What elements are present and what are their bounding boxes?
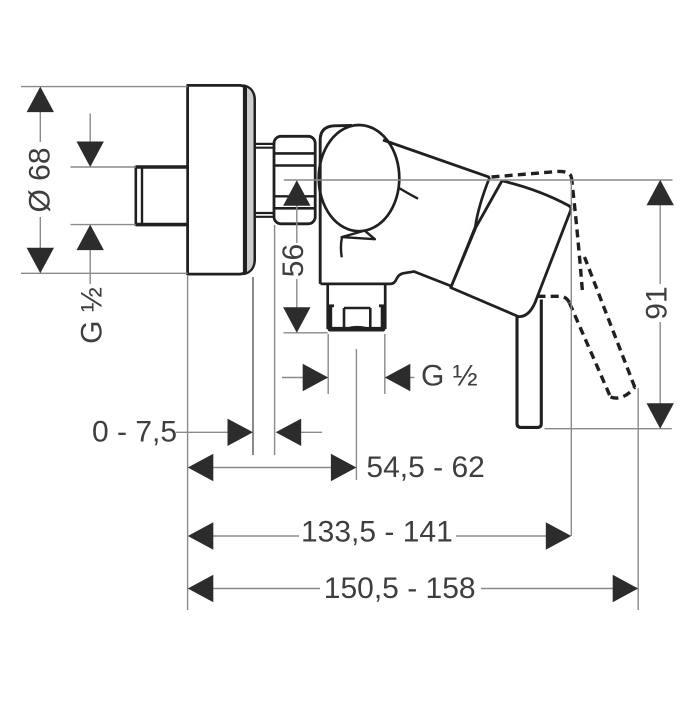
arrow 133.5-141 right — [546, 522, 572, 549]
ext line wall plane — [187, 276, 189, 610]
spout tip triangle — [342, 231, 375, 240]
ext line pipe bottom — [545, 428, 672, 430]
nut facet line 3 — [274, 195, 315, 197]
nut facet line 1 — [274, 152, 315, 155]
arrow 91 down — [647, 403, 674, 429]
dim line Ø68 upper — [39, 110, 41, 142]
dim line 56 upper — [296, 202, 298, 243]
arrow Ø68 bottom — [27, 248, 54, 273]
ext line nipple top — [71, 166, 136, 168]
outlet nut inner facet right — [369, 308, 372, 329]
pipe nipple inner end line — [141, 167, 143, 225]
ext line outlet right — [384, 334, 386, 394]
nut facet line 4 — [274, 207, 315, 210]
dim line 56 lower — [296, 279, 298, 310]
dashed grip end cap — [611, 387, 635, 398]
arrow 0-7.5 left-pointing — [276, 419, 302, 446]
outlet nut top edge left — [328, 304, 334, 307]
dim line 150.5-158 left — [212, 588, 320, 590]
dashed handle right edge — [571, 177, 582, 292]
flange outline — [188, 85, 255, 274]
ext line flange top — [21, 86, 188, 88]
dim line 133.5-141 left — [212, 535, 299, 537]
outlet tube outline — [328, 284, 386, 329]
body bottom edge — [321, 272, 520, 317]
ext line handle corner — [570, 179, 572, 536]
svg-text:G ½: G ½ — [421, 360, 478, 393]
ball ellipse — [319, 125, 400, 231]
dim line G12-mid left — [282, 377, 306, 379]
supply pipe nipple — [136, 167, 188, 225]
ext line nipple bottom — [71, 224, 136, 226]
dim line 0-7.5 right — [297, 431, 322, 433]
ball seam arc — [399, 188, 418, 199]
outlet nut inner facet left — [343, 308, 346, 329]
arrow 56 down — [283, 307, 310, 333]
arrow 54.5-62 left — [188, 454, 214, 481]
dashed grip left edge — [570, 303, 611, 397]
svg-text:0 - 7,5: 0 - 7,5 — [92, 416, 177, 449]
dim line 91 lower — [659, 322, 661, 408]
arrow 150.5-158 left — [188, 575, 214, 602]
arrow 133.5-141 left — [188, 522, 214, 549]
ext line outlet center — [355, 349, 357, 480]
svg-text:G ½: G ½ — [76, 287, 109, 344]
dim line G12-left lower — [89, 247, 91, 284]
outlet nut bottom arc — [346, 327, 370, 329]
dim line G12-left upper — [89, 114, 91, 146]
dim line 0-7.5 left — [176, 431, 231, 433]
flange gray face band — [243, 87, 255, 274]
outlet nut inner top line — [344, 307, 370, 310]
flange inner edge line — [245, 87, 247, 273]
arrow 54.5-62 right — [331, 454, 357, 481]
ext line grip end — [637, 388, 639, 610]
dim line Ø68 lower — [39, 217, 41, 250]
svg-text:Ø 68: Ø 68 — [24, 147, 57, 212]
arrow 0-7.5 right-pointing — [228, 419, 254, 446]
dashed grip right edge — [585, 257, 635, 387]
svg-text:54,5 - 62: 54,5 - 62 — [366, 451, 484, 484]
dim line 133.5-141 right — [456, 535, 547, 537]
neck top line — [255, 143, 275, 145]
nut facet line 2 — [274, 164, 315, 166]
ext line nut bottom — [284, 332, 328, 334]
ext line outlet left — [327, 334, 329, 394]
dim line 91 upper — [659, 202, 661, 284]
arrow 91 up — [647, 180, 674, 206]
svg-text:91: 91 — [641, 286, 674, 319]
dim line 150.5-158 right — [481, 588, 614, 590]
arrow G12-left up — [77, 225, 104, 251]
arrow G12-left down — [77, 142, 104, 168]
arrow Ø68 top — [27, 87, 54, 113]
svg-text:133,5 - 141: 133,5 - 141 — [301, 516, 453, 549]
cap front edge — [451, 177, 490, 287]
ext line nut face — [274, 225, 276, 455]
dashed handle top edge — [492, 171, 572, 177]
outlet fill — [328, 284, 386, 332]
handle left edge line — [476, 181, 502, 228]
pipe fill — [517, 300, 541, 428]
hex connection nut — [274, 136, 315, 224]
dim line 54.5-62 — [212, 467, 331, 469]
centerline axis — [284, 179, 673, 181]
spout seam stroke — [341, 237, 342, 257]
dashed handle bottom edge — [538, 296, 570, 303]
body+handle silhouette fill — [320, 125, 571, 317]
arrow 56 up — [283, 180, 310, 206]
body left edge — [320, 125, 352, 284]
arrow G12-mid left-pointing — [385, 364, 411, 391]
neck bottom line — [255, 212, 275, 214]
outlet nut top edge right — [379, 304, 385, 307]
ext line flange bottom — [21, 272, 188, 274]
ext line flange face — [252, 277, 254, 455]
body top slope — [383, 140, 490, 177]
dim line G12-mid right — [407, 377, 415, 379]
outlet nut thick body — [330, 306, 383, 329]
arrow 150.5-158 right — [613, 575, 639, 602]
svg-text:150,5 - 158: 150,5 - 158 — [324, 572, 476, 605]
arrow G12-mid right-pointing — [303, 364, 329, 391]
svg-text:56: 56 — [277, 244, 310, 277]
